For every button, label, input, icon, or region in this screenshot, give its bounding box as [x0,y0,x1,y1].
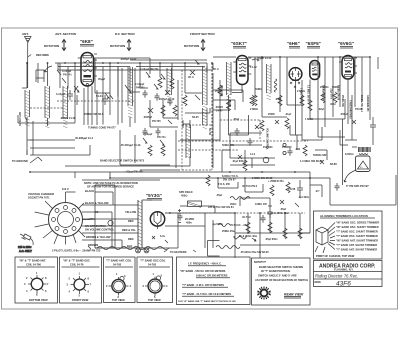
svg-text:BLACK: BLACK [85,189,94,193]
svg-text:450Ω: 450Ω [181,194,187,198]
svg-text:BROWN & YELLOW: BROWN & YELLOW [86,235,111,239]
svg-text:14-42: 14-42 [250,65,257,69]
svg-text:"W" BAND ANT. SHUNT TRIMMER: "W" BAND ANT. SHUNT TRIMMER [336,239,378,243]
svg-text:BROWN: BROWN [88,243,98,247]
svg-text:PN 725: PN 725 [152,119,161,123]
svg-text:VOLUME CONTROL: VOLUME CONTROL [266,128,268,150]
svg-text:ALIGNING TRIMMERS LOCATION: ALIGNING TRIMMERS LOCATION [320,214,368,218]
svg-text:.05μf: .05μf [280,207,286,211]
svg-text:T.O.S. 2W: T.O.S. 2W [218,182,230,186]
svg-text:ROTATION: ROTATION [184,44,199,48]
svg-text:14-4: 14-4 [250,152,256,156]
svg-text:AS FRONT OF REAR SECTION OF SW: AS FRONT OF REAR SECTION OF SWITCH [255,278,308,282]
svg-text:2 MEG PN 50: 2 MEG PN 50 [300,88,302,103]
svg-text:"T" BAND OSC COIL: "T" BAND OSC COIL [140,259,166,263]
svg-text:COIL 54-76: COIL 54-76 [70,263,84,267]
svg-text:.00025 14-46: .00025 14-46 [60,116,76,120]
svg-text:"T" BAND ANT. SHUNT TRIMMER: "T" BAND ANT. SHUNT TRIMMER [336,243,377,247]
svg-text:2W. GN 67: 2W. GN 67 [223,178,236,182]
svg-text:ROTATION: ROTATION [44,44,59,48]
svg-text:FRONT SECTION: FRONT SECTION [190,32,215,36]
svg-text:35μμf: 35μμf [98,77,105,81]
svg-text:2 PILOT LIGHTS, 6-8v ~ .25AMP: 2 PILOT LIGHTS, 6-8v ~ .25AMP PN 723 [52,249,101,253]
svg-text:"T" BAND ANT. SHUNT TRIMMER: "T" BAND ANT. SHUNT TRIMMER [336,248,377,252]
svg-text:NOTE: LINE VOLTAGE PLUG IN DIR: NOTE: LINE VOLTAGE PLUG IN DIRECTION [84,181,138,185]
svg-text:1600 KC OR 200 METERS: 1600 KC OR 200 METERS [196,274,228,278]
svg-text:54-792: 54-792 [148,263,157,267]
svg-text:C2: C2 [95,210,99,214]
svg-text:-21°: -21° [315,189,320,193]
svg-text:.05μf: .05μf [275,97,281,101]
svg-text:8,000Ω T.O.S.: 8,000Ω T.O.S. [222,174,239,178]
svg-text:"5Y3G": "5Y3G" [146,193,162,198]
svg-text:2 MEG: 2 MEG [250,107,258,111]
svg-text:BLACK & YELLOW: BLACK & YELLOW [85,201,109,205]
svg-text:.006: .006 [295,147,301,151]
svg-text:40-70Ω PN 6: 40-70Ω PN 6 [242,184,258,188]
svg-text:BLK: BLK [127,244,132,248]
svg-text:ON VOLUME CONTROL: ON VOLUME CONTROL [85,228,115,232]
svg-text:PRINT OF CHASSIS, TOP VIEW: PRINT OF CHASSIS, TOP VIEW [316,254,355,258]
svg-text:30 Ω: 30 Ω [188,75,194,79]
svg-text:.05μf: .05μf [233,117,239,121]
svg-text:50MΩ SW: 50MΩ SW [222,143,234,147]
svg-text:"T" BAND ANT. COIL: "T" BAND ANT. COIL [106,259,132,263]
svg-text:REAR VIEW: REAR VIEW [284,293,304,297]
svg-text:.25μf: .25μf [216,193,222,197]
svg-text:BAND SELECTOR SWITCH SHOWN: BAND SELECTOR SWITCH SHOWN [259,265,303,269]
svg-text:6.3v: 6.3v [160,234,166,238]
svg-text:FRONT VIEW: FRONT VIEW [72,298,89,302]
svg-text:PHONO: PHONO [263,145,273,149]
svg-text:68-88: 68-88 [330,162,337,166]
svg-text:200Ω: 200Ω [230,202,236,206]
svg-text:R.F. SECTION: R.F. SECTION [115,32,135,36]
svg-text:50MΩ: 50MΩ [255,87,262,91]
svg-text:1.0 MEG SW 68: 1.0 MEG SW 68 [307,85,309,102]
svg-text:58-25: 58-25 [192,115,199,119]
svg-text:-05-200μμf 14-4b: -05-200μμf 14-4b [120,143,141,147]
svg-text:25 M.F.D. - 25v: 25 M.F.D. - 25v [230,223,248,227]
svg-text:TOP VIEW: TOP VIEW [112,298,125,302]
svg-text:IN "T" BAND POSITION.: IN "T" BAND POSITION. [261,269,291,273]
svg-text:1 MEG: 1 MEG [305,117,313,121]
svg-text:14-47: 14-47 [216,109,223,113]
svg-text:"6SF5": "6SF5" [306,41,321,46]
svg-text:58-790: 58-790 [228,100,230,108]
svg-text:125 & 230v: 125 & 230v [18,245,32,249]
svg-text:.006μf: .006μf [340,112,348,116]
svg-text:OSC. COIL: OSC. COIL [220,85,222,97]
svg-text:-85 & 200Ω 40w: -85 & 200Ω 40w [238,234,258,238]
svg-text:FOR "W" BAND USE "T" BAND NEXT: FOR "W" BAND USE "T" BAND NEXT POSITION … [178,300,237,303]
svg-text:COIL 54-790: COIL 54-790 [26,263,42,267]
svg-text:.02μf: .02μf [318,107,324,111]
svg-text:RED: RED [128,237,134,241]
svg-text:PN 68: PN 68 [288,187,296,191]
svg-text:SOCKET PN 7071: SOCKET PN 7071 [28,196,50,200]
svg-text:TO GROUND: TO GROUND [12,159,28,163]
svg-text:RED & YEL: RED & YEL [122,228,136,232]
svg-text:NOTE:: NOTE: [254,260,262,264]
svg-text:"W" & "T" BAND ANT.: "W" & "T" BAND ANT. [19,259,46,263]
svg-text:40-70Ω: 40-70Ω [242,215,251,219]
svg-text:"6H6": "6H6" [287,41,300,46]
svg-text:.01μf 600v: .01μf 600v [232,159,245,163]
svg-text:43F6: 43F6 [336,281,351,288]
svg-text:3-10μμf: 3-10μμf [62,69,71,73]
svg-text:110 V.: 110 V. [62,187,69,191]
svg-text:ROTATION: ROTATION [110,44,125,48]
svg-text:8,000Ω: 8,000Ω [345,152,353,156]
svg-text:54-793: 54-793 [113,263,122,267]
svg-text:.0005μf: .0005μf [143,115,152,119]
svg-text:"6SK7": "6SK7" [231,41,247,46]
svg-text:5" PM SPK PN 527: 5" PM SPK PN 527 [346,184,369,188]
svg-text:Riding Director 76 Rec.: Riding Director 76 Rec. [315,274,358,279]
svg-text:SWITCH ANGLE 2° AND 5° ARE: SWITCH ANGLE 2° AND 5° ARE [258,274,297,278]
svg-text:YELLOW: YELLOW [125,210,137,214]
svg-text:+ 25MFD 25v: + 25MFD 25v [268,179,284,183]
svg-text:.1μf 400v: .1μf 400v [298,195,310,199]
svg-text:"T" BAND - 6 M.C. OR 50 METERS: "T" BAND - 6 M.C. OR 50 METERS [182,283,224,287]
svg-text:.01μf 600v: .01μf 600v [330,88,332,100]
svg-text:CANDOHM 500Ω: CANDOHM 500Ω [349,100,352,119]
svg-text:2-10μμf: 2-10μμf [135,82,144,86]
svg-text:250MΩ SW 68-8: 250MΩ SW 68-8 [84,112,104,116]
svg-text:500MΩ SW: 500MΩ SW [313,153,327,157]
svg-text:2-10μμf PN 741: 2-10μμf PN 741 [140,67,159,71]
svg-text:"T" BAND OSC. SHUNT TRIMMER: "T" BAND OSC. SHUNT TRIMMER [336,230,378,234]
svg-text:35 Ω: 35 Ω [213,67,219,71]
svg-text:"T" BAND OSC. SHUNT TRIMMER: "T" BAND OSC. SHUNT TRIMMER [336,234,378,238]
svg-text:RED: RED [128,219,134,223]
svg-text:.05μf 600v: .05μf 600v [265,237,278,241]
svg-text:RED WIRE: RED WIRE [36,53,49,57]
svg-text:40-380μμf 14-4: 40-380μμf 14-4 [75,136,94,140]
svg-text:450v: 450v [186,221,192,225]
svg-text:2-40μμf: 2-40μμf [143,132,152,136]
svg-text:.00025: .00025 [215,105,223,109]
svg-text:25MΩ 25w: 25MΩ 25w [222,229,236,233]
svg-text:ANT.: ANT. [22,32,29,36]
svg-text:A.C. ONLY: A.C. ONLY [19,249,32,253]
svg-text:35μμf 14-42: 35μμf 14-42 [257,56,272,60]
svg-text:.0005μf 14-42: .0005μf 14-42 [158,97,175,101]
svg-text:OF ARROW FOR REQUIRED SERVICE: OF ARROW FOR REQUIRED SERVICE [87,185,134,189]
svg-text:SPK FIELD: SPK FIELD [179,190,193,194]
svg-text:VOLTAGE CHANGER: VOLTAGE CHANGER [28,192,54,196]
svg-text:TUNING COND PN 677: TUNING COND PN 677 [88,126,116,130]
svg-text:10MΩ 1W: 10MΩ 1W [255,202,267,206]
svg-text:TOP VIEW: TOP VIEW [148,298,161,302]
svg-text:"W" & "T" BAND OSC: "W" & "T" BAND OSC [63,259,90,263]
svg-text:.01μf: .01μf [285,112,291,116]
svg-text:-25,000Ω 25w SW 68-95: -25,000Ω 25w SW 68-95 [240,250,269,254]
svg-text:"6K8": "6K8" [80,39,93,44]
svg-text:"6V6G": "6V6G" [338,41,354,46]
svg-text:"W" BAND OSC. SERIES TRIMMER: "W" BAND OSC. SERIES TRIMMER [336,221,379,225]
svg-text:4-1,400Ω 40w: 4-1,400Ω 40w [272,211,289,215]
svg-text:54-41: 54-41 [96,94,103,98]
svg-text:"W" BAND - 550 KC OR 545 METER: "W" BAND - 550 KC OR 545 METERS [180,269,226,273]
svg-text:FLUSHING, N.Y.: FLUSHING, N.Y. [334,268,354,272]
svg-text:PN 741: PN 741 [157,135,166,139]
svg-text:TO HEATERS: TO HEATERS [170,250,187,254]
svg-text:BOTTOM VIEW: BOTTOM VIEW [29,298,48,302]
svg-text:"W" BAND OSC. SHUNT TRIMMER: "W" BAND OSC. SHUNT TRIMMER [336,225,379,229]
svg-text:1.0 MEG SW 68-88: 1.0 MEG SW 68-88 [300,159,323,163]
svg-text:PN 741: PN 741 [136,86,145,90]
svg-text:+32μμf PN 44b: +32μμf PN 44b [125,170,143,174]
svg-text:.0005μf 14-42: .0005μf 14-42 [120,57,137,61]
svg-text:PN 741: PN 741 [63,73,72,77]
svg-text:250M: 250M [268,112,275,116]
svg-text:20 MFD: 20 MFD [185,217,194,221]
svg-text:ANT. SECTION: ANT. SECTION [54,32,77,36]
svg-text:3-10μμf: 3-10μμf [56,92,65,96]
svg-text:I. F. FREQUENCY - 456 K.C.: I. F. FREQUENCY - 456 K.C. [188,262,222,266]
svg-text:BAND SELECTOR SWITCH PN 7073: BAND SELECTOR SWITCH PN 7073 [100,159,145,163]
svg-text:"T" BAND - 21.5 M.C. OR 13.94: "T" BAND - 21.5 M.C. OR 13.94 METERS [182,292,231,296]
svg-text:MOD.: MOD. [315,280,322,284]
svg-text:400v: 400v [330,102,336,106]
svg-text:58-790: 58-790 [208,128,210,136]
